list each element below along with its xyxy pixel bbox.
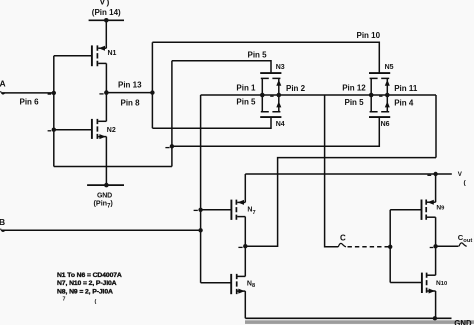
output break squiggle [459,243,467,246]
svg-text:Pin 5: Pin 5 [236,98,256,107]
wire bottom of A path [54,166,172,168]
wire A to TG2 bottom gate [172,117,379,146]
transmission gate TG1 (N3/N4) [260,73,281,117]
wire Abar to TG2 top gate [152,42,379,73]
VDD rail top [89,19,124,21]
VDD rail right [245,173,451,175]
wire Abar to TG1 bottom gate [152,117,271,128]
wire N9/N10 drains [435,217,437,275]
svg-text:Pin 2: Pin 2 [286,84,306,93]
wire A to TG1 top gate [172,61,271,73]
output wire [436,245,459,247]
wire TG1 out down to C [325,95,339,247]
wire Abar riser [151,42,153,128]
input B break squiggle [1,229,6,232]
svg-text:N3: N3 [276,64,285,71]
transistor N10 [422,273,436,294]
svg-text:(: ( [464,180,467,187]
svg-text:N1: N1 [108,50,117,57]
input A wire [2,92,54,94]
svg-text:Pin 10: Pin 10 [357,31,381,40]
ground rail [87,184,124,186]
C break squiggle [338,243,346,246]
input B wire [2,229,201,231]
tick marks [99,93,103,95]
svg-text:C: C [340,234,346,243]
wire TG2 out down [435,95,437,158]
wire inverter output [106,92,152,94]
svg-text:Pin 5: Pin 5 [345,98,365,107]
wire N9 source to VDD [435,174,437,202]
dashed C jumper [348,246,391,248]
transistor N9 [422,200,436,220]
input A break squiggle [1,91,6,94]
svg-text:Pin 11: Pin 11 [394,84,418,93]
svg-text:7: 7 [63,297,66,303]
ground rail bottom [245,317,451,319]
svg-text:N4: N4 [276,121,285,128]
wire A riser [171,61,173,167]
svg-text:(Pin 14): (Pin 14) [92,8,121,17]
svg-text:N7: N7 [247,207,255,216]
wire N10 gate [390,282,422,284]
wire N7 gate [201,209,232,211]
svg-text:(: ( [95,299,97,305]
wire gates vertical [53,56,55,167]
svg-text:V: V [100,0,106,6]
wire N7 source to VDD rail [244,174,246,202]
transmission gate TG2 (N5/N6) [369,73,390,117]
svg-text:N2: N2 [107,127,116,134]
svg-text:GND: GND [454,319,472,325]
svg-text:Pin 5: Pin 5 [248,50,268,59]
wire N8 source to ground rail [244,291,246,318]
wire B vertical [200,95,202,283]
wire N7/N8 drains [244,217,246,277]
svg-text:N8: N8 [247,281,255,290]
svg-text:Cout: Cout [458,233,473,244]
svg-text:V: V [458,171,463,178]
transistor N2 [54,119,107,139]
wire to N7/N8 output [245,158,436,247]
svg-text:N10: N10 [436,280,447,287]
wire C to gates vertical [389,210,391,283]
svg-text:A: A [0,79,6,89]
svg-text:(Pin7): (Pin7) [94,198,114,209]
transistor N8 [231,274,245,294]
svg-text:Pin 1: Pin 1 [236,84,256,93]
transistor N7 [231,200,245,220]
wire N10 source to ground [435,291,437,318]
wire N1 drain to VDD [105,20,107,48]
svg-text:N1 To N6 = CD4007A: N1 To N6 = CD4007A [57,272,122,279]
svg-text:Pin 8: Pin 8 [121,98,141,107]
svg-text:): ) [107,0,110,7]
wire mid rail through TGs [201,94,436,96]
svg-text:Pin 4: Pin 4 [394,98,414,107]
svg-text:N5: N5 [385,64,394,71]
svg-text:N9: N9 [436,204,445,211]
wire inverter internal [105,63,107,121]
wire N2 source to ground [105,137,107,186]
svg-text:Pin 12: Pin 12 [342,84,366,93]
svg-text:N7, N10 = 2, P-Jl0A: N7, N10 = 2, P-Jl0A [57,280,117,287]
svg-text:B: B [0,217,5,227]
svg-text:Pin 6: Pin 6 [20,98,40,107]
transistor N1 [54,45,107,66]
grey smudge under bottom rail [245,320,474,324]
wire N9 gate [390,209,421,211]
wire N8 gate [201,282,232,284]
svg-text:N8, N9 = 2, P-Jl0A: N8, N9 = 2, P-Jl0A [57,288,113,295]
svg-text:N6: N6 [381,121,390,128]
svg-text:Pin 13: Pin 13 [118,80,142,89]
